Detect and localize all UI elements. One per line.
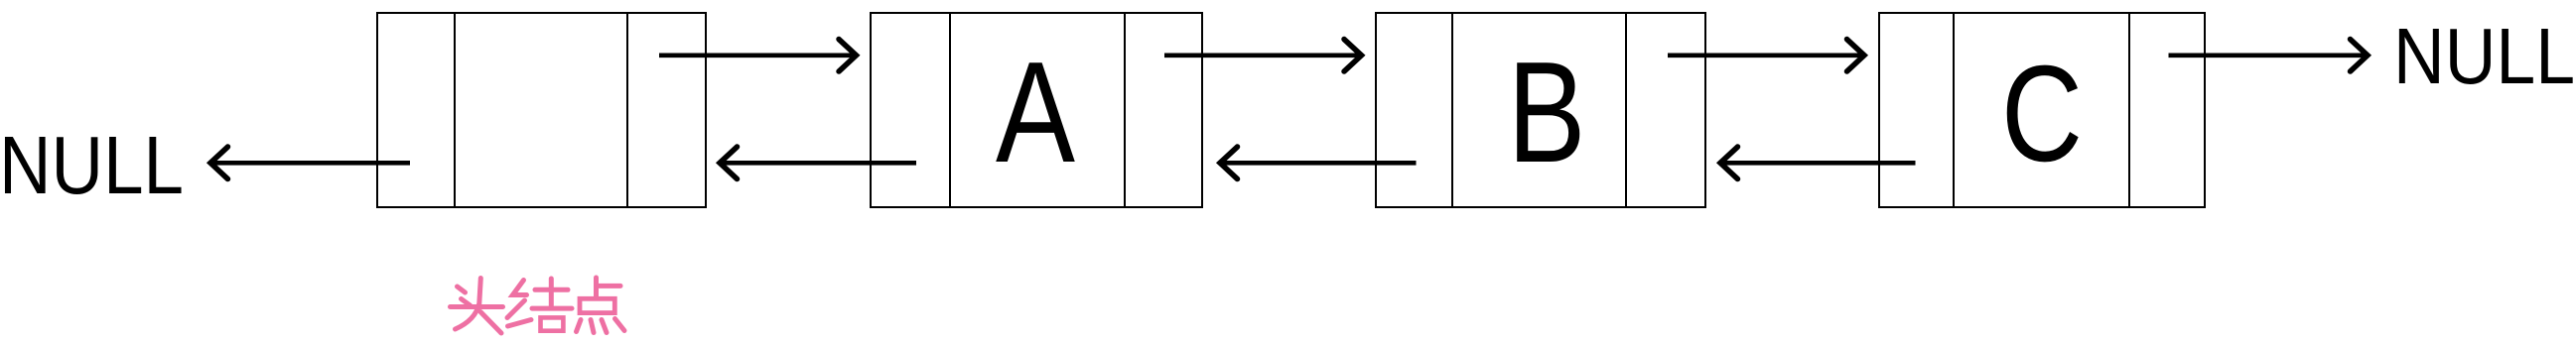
char TOU dot 2 [462,299,471,306]
char JIE middle horizontal [532,306,572,311]
char TOU right-falling dot [480,312,501,334]
wire: node B prev to node A arrow [1220,147,1417,179]
char JIE silk radical fold 1 [513,281,527,295]
wire: node B next to node C arrow [1668,40,1864,72]
svg-text:B: B [1508,32,1586,192]
wire: head prev to left NULL arrow [210,147,410,179]
head node caption (pink CJK drawn as strokes) [451,278,625,333]
char DIAN fire dot 2 [591,320,594,333]
char DIAN vertical [594,278,599,297]
wire: head next to node A arrow [659,40,857,72]
char JIE silk radical rising stroke [508,320,532,327]
svg-text:A: A [996,32,1075,192]
char JIE mouth box [541,317,564,330]
svg-text:NULL: NULL [0,119,184,211]
svg-text:NULL: NULL [2393,12,2575,100]
char DIAN mouth box [580,298,614,312]
node HEAD box [377,13,706,207]
char JIE top horizontal [535,288,568,292]
char TOU dot 1 [458,287,466,292]
wire: node C next to right NULL arrow [2169,40,2369,72]
svg-text:C: C [2001,38,2083,190]
char JIE vertical [549,279,554,307]
wire: node A next to node B arrow [1164,40,1362,72]
char DIAN right branch [597,284,621,288]
char DIAN fire dot 3 [602,320,607,333]
node A box [871,13,1202,207]
wire: node C prev to node B arrow [1720,147,1916,179]
char TOU left-falling stroke [456,279,481,330]
char DIAN fire dot 1 [577,320,582,332]
node C box [1879,13,2205,207]
char TOU horizontal [451,304,503,309]
node B box [1376,13,1705,207]
wire: node A prev to head arrow [720,147,916,179]
char JIE silk radical fold 2 [507,300,525,318]
char DIAN fire dot 4 [615,319,625,331]
